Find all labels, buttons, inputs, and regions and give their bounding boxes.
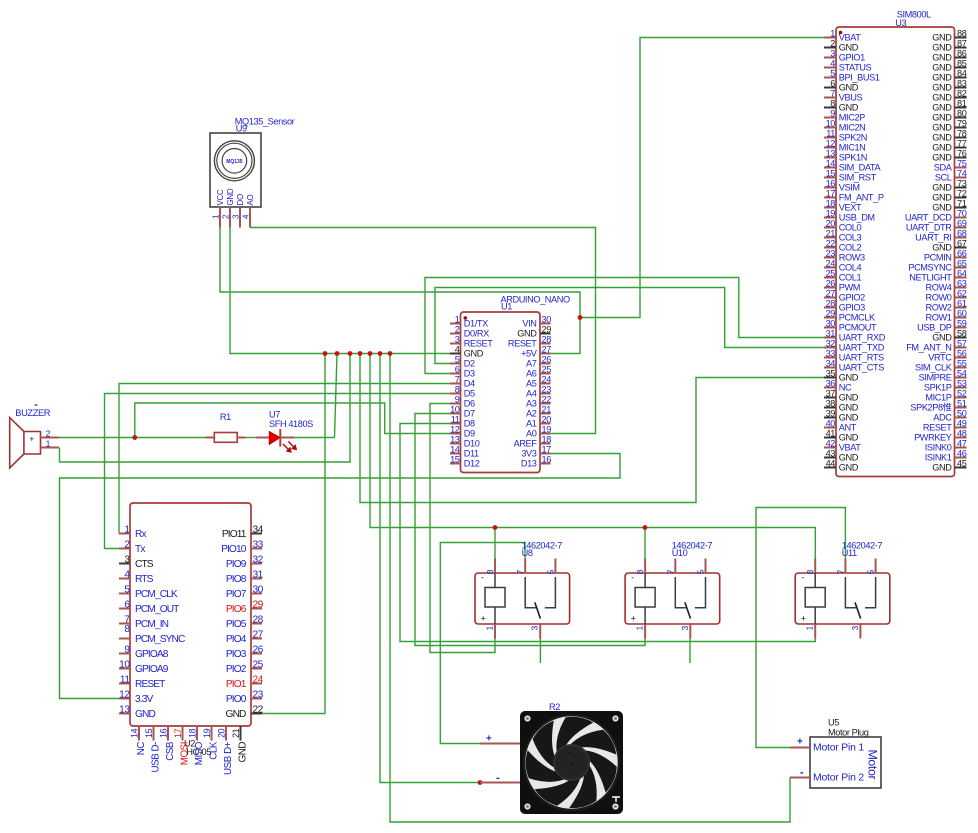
U2 pin 14 NC bbox=[130, 726, 148, 755]
U2 pin 32 PIO9 bbox=[226, 554, 264, 570]
svg-text:PWRKEY: PWRKEY bbox=[914, 433, 952, 443]
svg-text:PCM_IN: PCM_IN bbox=[135, 619, 169, 630]
svg-text:+: + bbox=[631, 614, 636, 624]
svg-text:-: - bbox=[481, 573, 484, 583]
svg-text:SIM_RST: SIM_RST bbox=[839, 173, 877, 183]
svg-text:RESET: RESET bbox=[464, 339, 493, 349]
U2 pin 30 PIO7 bbox=[226, 584, 264, 600]
svg-text:23: 23 bbox=[826, 248, 836, 258]
svg-text:COL4: COL4 bbox=[839, 263, 862, 273]
svg-text:GND: GND bbox=[135, 709, 155, 720]
svg-text:22: 22 bbox=[542, 394, 552, 404]
svg-text:VRTC: VRTC bbox=[928, 353, 952, 363]
wire MQ135 AO to U1 A0 bbox=[250, 228, 596, 434]
svg-text:UART_RI: UART_RI bbox=[915, 233, 951, 243]
svg-text:41: 41 bbox=[826, 428, 836, 438]
svg-text:PIO0: PIO0 bbox=[226, 694, 247, 705]
U2 pin 8 PCM_SYNC bbox=[119, 624, 185, 645]
svg-text:14: 14 bbox=[826, 158, 836, 168]
U3 pin 5 BPI_BUS1 bbox=[824, 68, 880, 82]
svg-text:PIO5: PIO5 bbox=[226, 619, 247, 630]
svg-text:28: 28 bbox=[253, 614, 264, 625]
svg-text:COL1: COL1 bbox=[839, 273, 862, 283]
svg-text:GND: GND bbox=[932, 333, 952, 343]
U3 pin 75 SDA bbox=[934, 158, 967, 172]
svg-text:A2: A2 bbox=[526, 409, 537, 419]
svg-text:VEXT: VEXT bbox=[839, 203, 862, 213]
svg-text:27: 27 bbox=[826, 288, 836, 298]
U3 pin 50 ADC bbox=[933, 408, 966, 422]
wire D3 to SIM800L UART_RXD bbox=[425, 278, 824, 374]
svg-text:NC: NC bbox=[136, 742, 147, 756]
svg-text:7: 7 bbox=[835, 569, 845, 574]
svg-text:PIO11: PIO11 bbox=[222, 529, 247, 540]
svg-text:51: 51 bbox=[957, 398, 967, 408]
wire +5V net MQ135 VCC to U1 pin27 bbox=[220, 228, 580, 354]
svg-text:34: 34 bbox=[826, 358, 836, 368]
svg-text:PIO3: PIO3 bbox=[226, 649, 247, 660]
svg-text:GPIO2: GPIO2 bbox=[839, 293, 865, 303]
U2 pin 34 PIO11 bbox=[222, 524, 264, 540]
U3 pin 60 ROW1 bbox=[926, 308, 967, 322]
wire U10 pin3 tail bbox=[689, 639, 691, 664]
svg-text:GND: GND bbox=[932, 153, 952, 163]
U2 pin 10 GPIOA9 bbox=[119, 659, 169, 675]
svg-text:D2: D2 bbox=[464, 359, 475, 369]
svg-text:SPK1P: SPK1P bbox=[924, 383, 952, 393]
svg-text:ROW1: ROW1 bbox=[926, 313, 952, 323]
svg-text:RESET: RESET bbox=[508, 339, 537, 349]
sensor U9 MQ135_Sensor body bbox=[210, 133, 261, 207]
svg-text:85: 85 bbox=[957, 58, 967, 68]
svg-text:5: 5 bbox=[866, 569, 876, 574]
svg-text:A7: A7 bbox=[526, 359, 537, 369]
U3 pin 10 MIC2N bbox=[824, 118, 865, 132]
svg-text:5: 5 bbox=[124, 584, 130, 595]
junction dot 1 bbox=[323, 351, 328, 356]
U3 pin 14 SIM_DATA bbox=[824, 158, 881, 172]
svg-text:RESET: RESET bbox=[923, 423, 952, 433]
svg-text:GND: GND bbox=[839, 43, 859, 53]
svg-text:A3: A3 bbox=[526, 399, 537, 409]
wire U8 pin3 tail bbox=[539, 639, 541, 664]
U3 pin 25 COL1 bbox=[824, 268, 861, 282]
svg-text:D13: D13 bbox=[521, 459, 537, 469]
svg-text:ROW3: ROW3 bbox=[839, 253, 865, 263]
buzzer BUZZER symbol bbox=[10, 418, 41, 468]
svg-text:3: 3 bbox=[680, 626, 690, 631]
svg-text:38: 38 bbox=[826, 398, 836, 408]
U10 coil bbox=[635, 573, 655, 624]
U3 pin 64 NETLIGHT bbox=[909, 268, 966, 282]
svg-text:+5V: +5V bbox=[521, 349, 538, 359]
svg-text:2: 2 bbox=[46, 428, 51, 438]
svg-text:13: 13 bbox=[826, 148, 836, 158]
U2 pin 2 Tx bbox=[119, 539, 145, 555]
svg-text:83: 83 bbox=[957, 78, 967, 88]
U2 pin 27 PIO4 bbox=[226, 629, 264, 645]
svg-text:UART_CTS: UART_CTS bbox=[839, 363, 884, 373]
svg-text:25: 25 bbox=[826, 268, 836, 278]
U2 pin 11 RESET bbox=[119, 674, 165, 690]
svg-text:50: 50 bbox=[957, 408, 967, 418]
svg-text:74: 74 bbox=[957, 168, 967, 178]
junction dot 12 bbox=[478, 780, 483, 785]
svg-text:COL0: COL0 bbox=[839, 223, 862, 233]
svg-text:GND: GND bbox=[839, 373, 859, 383]
svg-text:53: 53 bbox=[957, 378, 967, 388]
U3 pin 83 GND bbox=[932, 78, 966, 92]
svg-text:GND: GND bbox=[932, 133, 952, 143]
svg-text:8: 8 bbox=[124, 624, 130, 635]
svg-text:Motor: Motor bbox=[866, 750, 880, 780]
svg-text:29: 29 bbox=[253, 599, 264, 610]
svg-text:RTS: RTS bbox=[135, 574, 154, 585]
svg-text:MOSI: MOSI bbox=[180, 742, 191, 765]
svg-text:6: 6 bbox=[830, 78, 835, 88]
svg-text:78: 78 bbox=[957, 128, 967, 138]
svg-text:-: - bbox=[801, 573, 804, 583]
U10 pin 7 bbox=[665, 559, 675, 575]
svg-text:D11: D11 bbox=[464, 449, 479, 459]
svg-text:Tx: Tx bbox=[135, 544, 145, 555]
svg-text:NETLIGHT: NETLIGHT bbox=[909, 273, 952, 283]
svg-text:U9: U9 bbox=[236, 124, 247, 134]
svg-text:79: 79 bbox=[957, 118, 967, 128]
U1 pin 10 D7 bbox=[450, 404, 475, 418]
U3 pin 57 FM_ANT_N bbox=[906, 338, 967, 352]
svg-text:5: 5 bbox=[696, 569, 706, 574]
U3 pin 56 VRTC bbox=[928, 348, 966, 362]
svg-text:7: 7 bbox=[830, 88, 835, 98]
svg-text:88: 88 bbox=[957, 28, 967, 38]
svg-text:SDA: SDA bbox=[934, 163, 953, 173]
junction dot 3 bbox=[348, 351, 353, 356]
svg-text:22: 22 bbox=[826, 238, 836, 248]
U3 pin 32 UART_TXD bbox=[824, 338, 885, 352]
svg-text:ISINK0: ISINK0 bbox=[925, 443, 952, 453]
U11 coil bbox=[805, 573, 825, 624]
svg-text:20: 20 bbox=[826, 218, 836, 228]
svg-text:R2: R2 bbox=[549, 702, 560, 712]
wire GND branch to fan minus bbox=[380, 354, 480, 783]
svg-text:GND: GND bbox=[932, 193, 952, 203]
U8 pin 1 bbox=[485, 624, 496, 639]
U1 pin 1 D1/TX bbox=[450, 314, 488, 328]
U3 pin 78 GND bbox=[932, 128, 966, 142]
svg-text:VBUS: VBUS bbox=[839, 93, 863, 103]
svg-text:FM_ANT_P: FM_ANT_P bbox=[839, 193, 884, 203]
U2 pin 4 RTS bbox=[119, 569, 154, 585]
U3 pin 38 GND bbox=[824, 398, 859, 412]
LED U7 SFH 4180S bbox=[256, 410, 313, 453]
svg-text:1: 1 bbox=[455, 314, 460, 324]
svg-text:21: 21 bbox=[231, 728, 241, 738]
wire +5V branch to SIM800L VBAT pin1 bbox=[580, 38, 824, 318]
svg-text:PIO2: PIO2 bbox=[226, 664, 247, 675]
svg-text:SCL: SCL bbox=[935, 173, 952, 183]
wire D5 to HC-05 Tx bbox=[105, 394, 451, 549]
IC U1 ARDUINO_NANO body bbox=[461, 312, 541, 473]
svg-text:33: 33 bbox=[826, 348, 836, 358]
U1 pin 2 D0/RX bbox=[450, 324, 489, 338]
U3 pin 47 ISINK0 bbox=[925, 438, 967, 452]
svg-text:CSB: CSB bbox=[165, 741, 176, 761]
U1 pin 24 A5 bbox=[526, 374, 551, 388]
svg-text:27: 27 bbox=[253, 629, 264, 640]
svg-text:PCMCLK: PCMCLK bbox=[839, 313, 876, 323]
svg-text:UART_DTR: UART_DTR bbox=[906, 223, 952, 233]
U11 pin 7 bbox=[835, 559, 845, 575]
svg-text:UART_RXD: UART_RXD bbox=[839, 333, 886, 343]
svg-text:-: - bbox=[800, 767, 804, 779]
svg-text:PCM_SYNC: PCM_SYNC bbox=[135, 634, 185, 645]
svg-text:27: 27 bbox=[542, 344, 552, 354]
svg-text:FM_ANT_N: FM_ANT_N bbox=[906, 343, 951, 353]
svg-text:PIO1: PIO1 bbox=[226, 679, 247, 690]
U9 middle circle bbox=[217, 143, 252, 178]
svg-text:26: 26 bbox=[826, 278, 836, 288]
U8 pin 8 bbox=[485, 559, 495, 575]
U9 pin 1 VCC bbox=[212, 189, 226, 228]
fan pin minus bbox=[480, 772, 520, 784]
svg-text:4: 4 bbox=[124, 569, 130, 580]
svg-text:11: 11 bbox=[451, 414, 460, 424]
svg-text:1: 1 bbox=[124, 524, 130, 535]
U9 pin 3 DO bbox=[232, 194, 246, 227]
svg-text:1: 1 bbox=[635, 626, 645, 631]
U3 pin 59 USB_DP bbox=[917, 318, 967, 332]
wire buzzer pin2 to R1 bbox=[59, 437, 206, 439]
U3 pin 34 UART_CTS bbox=[824, 358, 884, 372]
svg-text:D5: D5 bbox=[464, 389, 475, 399]
wire GND branch to LED cathode bbox=[335, 354, 338, 438]
U2 pin 3 CTS bbox=[119, 554, 154, 570]
relay U10 1462042-7 body bbox=[625, 573, 720, 624]
svg-text:18: 18 bbox=[542, 434, 552, 444]
U3 pin 43 GND bbox=[824, 448, 859, 462]
svg-text:U5: U5 bbox=[828, 718, 839, 728]
svg-text:26: 26 bbox=[253, 644, 264, 655]
svg-text:BUZZER: BUZZER bbox=[15, 408, 50, 418]
buzzer pin 2 bbox=[41, 428, 60, 438]
svg-text:R1: R1 bbox=[220, 412, 231, 422]
svg-text:39: 39 bbox=[826, 408, 836, 418]
svg-text:63: 63 bbox=[957, 278, 967, 288]
U2 pin 23 PIO0 bbox=[226, 689, 264, 705]
svg-text:USB_DM: USB_DM bbox=[839, 213, 875, 223]
U11 pin 3 bbox=[850, 624, 861, 639]
svg-text:COL3: COL3 bbox=[839, 233, 862, 243]
junction dot 4 bbox=[358, 351, 363, 356]
U3 pin 23 ROW3 bbox=[824, 248, 865, 262]
svg-text:59: 59 bbox=[957, 318, 967, 328]
svg-text:GND: GND bbox=[839, 413, 859, 423]
wire U10 pin8 drop bbox=[644, 528, 646, 559]
svg-text:UART_RTS: UART_RTS bbox=[839, 353, 884, 363]
U3 pin 82 GND bbox=[932, 88, 966, 102]
U3 pin 48 PWRKEY bbox=[914, 428, 967, 442]
U2 pin 15 USB D- bbox=[144, 726, 162, 773]
svg-text:7: 7 bbox=[515, 569, 525, 574]
svg-text:GND: GND bbox=[932, 243, 952, 253]
svg-text:-: - bbox=[496, 772, 500, 784]
svg-text:14: 14 bbox=[450, 444, 460, 454]
svg-text:55: 55 bbox=[957, 358, 967, 368]
svg-text:67: 67 bbox=[957, 238, 967, 248]
U1 pin 25 A6 bbox=[526, 364, 551, 378]
svg-text:A5: A5 bbox=[526, 379, 537, 389]
svg-text:3: 3 bbox=[850, 626, 860, 631]
svg-text:SPK2P8惟: SPK2P8惟 bbox=[910, 402, 951, 413]
svg-text:64: 64 bbox=[957, 268, 967, 278]
U3 pin 84 GND bbox=[932, 68, 966, 82]
svg-text:D1/TX: D1/TX bbox=[464, 319, 488, 329]
svg-text:Motor Pin 1: Motor Pin 1 bbox=[813, 743, 864, 754]
svg-text:24: 24 bbox=[826, 258, 836, 268]
svg-text:84: 84 bbox=[957, 68, 967, 78]
svg-text:45: 45 bbox=[957, 458, 967, 468]
wire D7 to U10 pin1 bbox=[415, 414, 645, 646]
U3 pin1 marker dot bbox=[839, 31, 843, 35]
junction dot 2 bbox=[335, 351, 340, 356]
U3 pin 27 GPIO2 bbox=[824, 288, 865, 302]
svg-text:D0/RX: D0/RX bbox=[464, 329, 489, 339]
svg-text:D10: D10 bbox=[464, 439, 480, 449]
svg-text:GPIOA9: GPIOA9 bbox=[135, 664, 169, 675]
svg-text:46: 46 bbox=[957, 448, 967, 458]
svg-text:18: 18 bbox=[188, 728, 198, 738]
svg-text:+: + bbox=[30, 435, 35, 444]
U1 pin 30 VIN bbox=[522, 314, 551, 328]
svg-text:MIC2N: MIC2N bbox=[839, 123, 866, 133]
wire LED U7 to GND slant bbox=[294, 437, 334, 439]
svg-text:44: 44 bbox=[826, 458, 836, 468]
svg-text:GND: GND bbox=[932, 53, 952, 63]
svg-text:4: 4 bbox=[830, 58, 835, 68]
wire GND branch relay coil bus to U8 U10 U11 pin8 bbox=[370, 354, 815, 559]
U3 pin 63 ROW4 bbox=[926, 278, 967, 292]
svg-text:8: 8 bbox=[455, 384, 460, 394]
U8 contact bbox=[525, 577, 555, 619]
svg-text:30: 30 bbox=[826, 318, 836, 328]
U1 pin 14 D11 bbox=[450, 444, 479, 458]
junction dot 6 bbox=[378, 351, 383, 356]
svg-text:GND: GND bbox=[238, 742, 249, 763]
U9 pin 4 AO bbox=[242, 194, 256, 227]
U2 pin 26 PIO3 bbox=[226, 644, 264, 660]
svg-text:30: 30 bbox=[542, 314, 552, 324]
U3 pin 87 GND bbox=[932, 38, 966, 52]
svg-text:SFH 4180S: SFH 4180S bbox=[269, 419, 313, 429]
junction dot 9 bbox=[493, 525, 498, 530]
wire GND branch to HC-05 pin22 bbox=[262, 354, 325, 714]
svg-text:GND: GND bbox=[839, 453, 859, 463]
svg-text:PCMOUT: PCMOUT bbox=[839, 323, 877, 333]
svg-text:CTS: CTS bbox=[135, 559, 154, 570]
junction dot 11 bbox=[132, 435, 137, 440]
U3 pin 66 PCMIN bbox=[924, 248, 967, 262]
U3 pin 79 GND bbox=[932, 118, 966, 132]
U3 pin 49 RESET bbox=[923, 418, 967, 432]
U3 pin 53 SPK1P bbox=[924, 378, 967, 392]
svg-text:72: 72 bbox=[957, 188, 967, 198]
svg-text:D8: D8 bbox=[464, 419, 475, 429]
wire D4 to HC-05 Rx bbox=[119, 384, 450, 534]
svg-text:11: 11 bbox=[120, 674, 130, 685]
svg-text:GND: GND bbox=[517, 329, 537, 339]
U1 pin 9 D6 bbox=[450, 394, 475, 408]
svg-text:25: 25 bbox=[542, 364, 552, 374]
U2 pin 28 PIO5 bbox=[226, 614, 264, 630]
svg-text:MIC1N: MIC1N bbox=[839, 143, 866, 153]
U3 pin 37 GND bbox=[824, 388, 859, 402]
svg-text:GND: GND bbox=[932, 93, 952, 103]
svg-text:21: 21 bbox=[542, 404, 552, 414]
U10 pin 3 bbox=[680, 624, 691, 639]
svg-text:34: 34 bbox=[253, 524, 264, 535]
U10 pin 1 bbox=[635, 624, 646, 639]
U3 pin 73 GND bbox=[932, 178, 966, 192]
U2 pin 18 MISO bbox=[188, 726, 206, 765]
svg-text:43: 43 bbox=[826, 448, 836, 458]
U2 pin 7 PCM_IN bbox=[119, 615, 169, 631]
svg-text:32: 32 bbox=[826, 338, 836, 348]
svg-text:10: 10 bbox=[826, 118, 836, 128]
wire D6 to U8 pin1 bbox=[430, 404, 495, 653]
svg-text:AREF: AREF bbox=[514, 439, 538, 449]
U3 pin 74 SCL bbox=[935, 168, 967, 182]
svg-text:PIO8: PIO8 bbox=[226, 574, 247, 585]
svg-text:AO: AO bbox=[246, 194, 255, 205]
svg-text:PWM: PWM bbox=[839, 283, 860, 293]
svg-text:-: - bbox=[631, 573, 634, 583]
svg-text:30: 30 bbox=[253, 584, 264, 595]
svg-text:U11: U11 bbox=[842, 548, 857, 558]
svg-text:17: 17 bbox=[826, 188, 836, 198]
U3 pin 80 GND bbox=[932, 108, 966, 122]
svg-text:87: 87 bbox=[957, 38, 967, 48]
U3 pin 36 NC bbox=[824, 378, 852, 392]
svg-text:24: 24 bbox=[253, 674, 264, 685]
svg-text:6: 6 bbox=[124, 599, 130, 610]
U3 pin 2 GND bbox=[824, 38, 859, 52]
U3 pin 22 COL2 bbox=[824, 238, 861, 252]
U11 pin 1 bbox=[805, 624, 816, 639]
svg-text:MIC1P: MIC1P bbox=[925, 393, 951, 403]
svg-text:PIO9: PIO9 bbox=[226, 559, 247, 570]
wire D8 to U11 pin1 bbox=[400, 424, 815, 642]
svg-text:RESET: RESET bbox=[135, 679, 165, 690]
U3 pin 29 PCMCLK bbox=[824, 308, 876, 322]
svg-text:GND: GND bbox=[932, 83, 952, 93]
wire D9 to buzzer line bbox=[135, 403, 450, 438]
svg-text:GND: GND bbox=[932, 463, 952, 473]
U3 pin 88 GND bbox=[932, 28, 966, 42]
svg-text:9: 9 bbox=[124, 644, 130, 655]
svg-text:9: 9 bbox=[830, 108, 835, 118]
U1 pin 5 D2 bbox=[450, 354, 475, 368]
U9 inner circle bbox=[222, 149, 247, 174]
U2 pin 19 CLK bbox=[202, 726, 220, 760]
svg-text:5: 5 bbox=[830, 68, 835, 78]
svg-text:23: 23 bbox=[542, 384, 552, 394]
svg-text:PCM_OUT: PCM_OUT bbox=[135, 604, 179, 615]
wire U11 pin7 to motor pin1 bbox=[756, 508, 845, 748]
U2 pin 25 PIO2 bbox=[226, 659, 264, 675]
svg-text:42: 42 bbox=[826, 438, 836, 448]
U3 pin 51 SPK2P8惟 bbox=[910, 398, 966, 412]
